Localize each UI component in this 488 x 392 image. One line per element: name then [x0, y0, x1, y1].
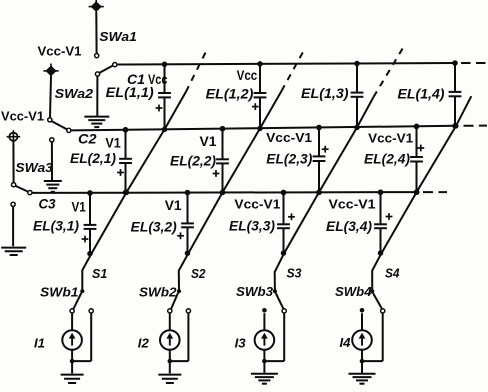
switch SWa3 pivot contact	[12, 183, 16, 187]
junction: EL(3,4) top node	[378, 190, 384, 196]
junction: column 4 ground node	[360, 359, 365, 364]
svg-text:EL(3,1): EL(3,1)	[33, 219, 79, 234]
junction on rail 2	[414, 124, 420, 129]
label SWa3	[15, 160, 53, 175]
capacitor EL(2,3) (EL element)	[313, 128, 329, 193]
svg-text:SWa1: SWa1	[99, 29, 137, 44]
svg-text:EL(2,3): EL(2,3)	[266, 152, 312, 167]
junction on rail 2	[123, 127, 129, 133]
switch SWb3 right contact	[282, 309, 286, 313]
ground (column 3)	[251, 374, 278, 384]
svg-text:I3: I3	[235, 335, 247, 350]
wire: SWa3 supply lead	[12, 141, 14, 182]
wire: SWb3 bypass branch	[264, 313, 284, 361]
svg-text:EL(1,3): EL(1,3)	[301, 86, 349, 101]
svg-text:V1: V1	[200, 134, 217, 149]
capacitor EL(2,2) (EL element)	[213, 129, 229, 193]
junction: EL(1,4) top node	[452, 60, 458, 66]
wire: row electrode rail 2	[71, 126, 456, 131]
wire: SWa1 supply lead	[95, 12, 97, 53]
svg-text:EL(1,2): EL(1,2)	[206, 87, 254, 102]
junction: EL(3,3) top node	[281, 190, 287, 196]
capacitor EL(1,4) (EL element)	[449, 63, 462, 126]
junction: EL(2,2) top node	[220, 126, 226, 132]
switch SWb4 left contact	[360, 308, 365, 313]
label SWa1	[99, 29, 137, 44]
junction: EL(2,3) top node	[316, 125, 322, 131]
capacitor C3 to ground (plates)	[1, 248, 26, 255]
svg-text:Vcc-V1: Vcc-V1	[1, 109, 44, 124]
switch SWb3 pivot	[273, 289, 277, 293]
wire: I1 lower lead	[71, 350, 73, 361]
wire: SWb1 bypass branch	[72, 313, 91, 361]
wire: SWb2 bypass branch	[170, 313, 189, 361]
current source I2	[160, 330, 180, 350]
switch SWb4 pivot	[370, 289, 374, 293]
switch SWb2 left contact	[168, 309, 172, 313]
label Vcc-V1 (SWa2 supply)	[38, 43, 82, 58]
switch SWb2 right contact	[186, 309, 190, 313]
wire: row-1 capacitor lead	[96, 76, 98, 116]
svg-text:S3: S3	[287, 265, 303, 280]
junction: column 3 ground node	[262, 359, 267, 364]
junction: EL(2,1) top node	[123, 127, 129, 133]
junction on rail 3	[414, 189, 420, 195]
wire: ground stem column 3	[263, 361, 265, 373]
label SWb1	[40, 285, 79, 299]
junction: EL(2,1) bottom node	[123, 190, 129, 196]
capacitor EL(2,4) (EL element)	[410, 126, 424, 192]
wire: I2 lower lead	[169, 350, 171, 361]
junction: EL(1,1) bottom node	[162, 127, 168, 133]
value label EL(2,4)	[364, 152, 410, 167]
svg-text:S1: S1	[92, 266, 107, 281]
junction on rail 2	[220, 126, 226, 132]
switch SWb1 pivot	[80, 289, 84, 293]
svg-text:C3: C3	[39, 196, 56, 211]
junction on rail 2	[316, 125, 322, 131]
svg-text:SWa2: SWa2	[55, 86, 94, 101]
switch SWb1 right contact	[89, 309, 93, 313]
wire: ground stem column 1	[71, 361, 73, 373]
capacitor C1 to ground (plates)	[84, 117, 109, 128]
junction: EL(2,4) top node	[414, 124, 420, 129]
ground (column 4)	[349, 374, 376, 384]
switch SWb4 right contact	[381, 309, 385, 313]
junction: EL(3,1) bottom node	[87, 251, 93, 257]
svg-text:EL(3,3): EL(3,3)	[229, 219, 275, 234]
svg-text:EL(1,4): EL(1,4)	[398, 87, 445, 102]
capacitor EL(1,3) (EL element)	[351, 64, 364, 128]
wire: I3 upper lead	[263, 313, 265, 329]
switch SWa3 lower fixed contact	[11, 202, 15, 206]
current source I3	[255, 330, 275, 350]
junction on rail 3	[220, 190, 226, 196]
net label Vcc-V1	[329, 196, 376, 211]
svg-text:Vcc: Vcc	[237, 68, 258, 83]
junction: EL(1,1) top node	[162, 62, 168, 68]
capacitor EL(3,2) (EL element)	[177, 193, 194, 254]
value label EL(3,3)	[229, 219, 275, 234]
label Vcc-V1 (SWa3 supply)	[1, 109, 44, 124]
switch SWa1 fixed contact	[95, 54, 99, 58]
net label Vcc-V1	[266, 130, 312, 145]
svg-text:Vcc-V1: Vcc-V1	[234, 196, 280, 211]
net label Vcc-V1	[234, 196, 280, 211]
junction on rail 2	[453, 123, 459, 128]
wire: row-2 capacitor lead	[51, 142, 53, 180]
junction: EL(2,4) bottom node	[414, 189, 420, 195]
svg-text:Vcc-V1: Vcc-V1	[266, 130, 312, 145]
junction: EL(3,3) bottom node	[281, 250, 287, 256]
junction: EL(3,2) top node	[185, 190, 191, 196]
switch SWb3 arm (to bypass)	[276, 293, 284, 308]
switch SWa1/row-1 pivot contact	[95, 72, 99, 76]
wire: rail 3 dashed continuation	[423, 191, 447, 193]
label S2	[191, 266, 206, 281]
switch SWa2 arm (to rail 2)	[52, 121, 67, 129]
wire: column 1 select line (diagonal)	[82, 49, 207, 292]
label SWb4	[335, 285, 372, 299]
svg-text:I1: I1	[34, 335, 45, 350]
wire: row-3 capacitor lead	[12, 207, 14, 247]
svg-text:EL(1,1): EL(1,1)	[106, 85, 154, 100]
switch row-2 rail contact	[67, 128, 71, 132]
junction: EL(3,4) bottom node	[378, 250, 384, 256]
capacitor EL(3,3) (EL element)	[277, 193, 295, 254]
svg-text:SWb2: SWb2	[139, 285, 177, 299]
wire: I3 lower lead	[263, 350, 265, 361]
svg-text:SWb3: SWb3	[236, 285, 273, 299]
switch SWa1 arm (to rail 1)	[99, 66, 113, 73]
svg-text:Vcc-V1: Vcc-V1	[38, 43, 82, 58]
capacitor EL(3,1) (EL element)	[82, 193, 97, 254]
svg-text:C2: C2	[78, 132, 97, 147]
current source I1	[62, 330, 82, 350]
switch SWa2 pivot contact	[48, 118, 52, 122]
label I4	[340, 335, 352, 350]
power terminal (SWa2 supply)	[43, 64, 58, 79]
value label EL(2,2)	[170, 153, 216, 168]
svg-text:EL(2,1): EL(2,1)	[70, 151, 116, 166]
net label V1	[165, 198, 182, 213]
junction: EL(2,2) bottom node	[220, 190, 226, 196]
value label EL(2,3)	[266, 152, 312, 167]
wire: rail 1 dashed continuation	[461, 62, 487, 64]
wire: column 4 select line (diagonal)	[372, 96, 471, 290]
junction: column 1 ground node	[70, 359, 75, 364]
value label EL(3,4)	[326, 219, 372, 234]
svg-text:S4: S4	[385, 265, 400, 280]
switch row-1 rail contact	[113, 63, 117, 67]
label S3	[287, 265, 303, 280]
label SWb3	[236, 285, 273, 299]
label S1	[92, 266, 107, 281]
capacitor C2 to ground (plates)	[44, 181, 62, 192]
ground (column 2)	[158, 375, 181, 383]
wire: row electrode rail 3	[32, 191, 417, 194]
wire: SWb4 bypass branch	[362, 313, 383, 361]
value label EL(2,1)	[70, 151, 116, 166]
label I1	[34, 335, 45, 350]
net label V1	[200, 134, 217, 149]
label C1	[127, 72, 145, 87]
label SWb2	[139, 285, 177, 299]
label SWa2	[55, 86, 94, 101]
power terminal (SWa3 supply)	[7, 130, 21, 143]
svg-text:V1: V1	[105, 136, 121, 151]
svg-text:SWa3: SWa3	[15, 160, 53, 175]
net label Vcc-V1	[368, 131, 413, 146]
switch SWb2 arm (to current source)	[171, 293, 178, 309]
switch SWa2 lower fixed contact	[50, 138, 54, 142]
wire: I2 upper lead	[169, 313, 171, 329]
wire: ground stem column 4	[361, 361, 363, 373]
junction: EL(3,2) bottom node	[185, 250, 191, 256]
label C3	[39, 196, 56, 211]
svg-text:I2: I2	[138, 335, 150, 350]
label Vcc (row 1 node)	[148, 72, 168, 87]
net label V1	[72, 199, 87, 214]
capacitor EL(1,2) (EL element)	[252, 64, 267, 128]
junction on rail 3	[185, 190, 191, 196]
value label EL(1,2)	[206, 87, 254, 102]
switch SWb1 arm (to current source)	[73, 293, 81, 309]
net label V1	[105, 136, 121, 151]
switch SWb3 left contact	[262, 308, 267, 313]
switch row-3 rail contact	[28, 191, 32, 195]
svg-text:SWb1: SWb1	[40, 285, 79, 299]
junction: EL(3,1) top node	[87, 190, 93, 196]
junction on rail 3	[316, 190, 322, 196]
value label EL(3,2)	[131, 220, 177, 235]
junction: EL(2,3) bottom node	[316, 190, 322, 196]
value label EL(1,1)	[106, 85, 154, 100]
capacitor EL(3,4) (EL element)	[374, 192, 392, 253]
junction: EL(1,3) bottom node	[354, 125, 360, 130]
svg-text:EL(3,2): EL(3,2)	[131, 220, 177, 235]
wire: SWa2 supply lead	[50, 76, 51, 117]
wire: column 2 select line (diagonal)	[179, 48, 306, 292]
junction: EL(1,3) top node	[354, 61, 360, 67]
ground (column 1)	[61, 375, 84, 383]
capacitor EL(2,1) (EL element)	[117, 130, 132, 193]
junction: EL(1,2) top node	[257, 61, 263, 67]
value label EL(1,4)	[398, 87, 445, 102]
junction on rail 3	[378, 190, 384, 196]
svg-text:EL(3,4): EL(3,4)	[326, 219, 372, 234]
svg-text:V1: V1	[72, 199, 87, 214]
svg-text:EL(2,2): EL(2,2)	[170, 153, 216, 168]
label C2	[78, 132, 97, 147]
junction: EL(1,2) bottom node	[257, 126, 263, 132]
wire: ground stem column 2	[169, 361, 171, 373]
net label Vcc	[237, 68, 258, 83]
current source I4	[352, 330, 372, 350]
svg-text:S2: S2	[191, 266, 206, 281]
svg-text:Vcc-V1: Vcc-V1	[368, 131, 413, 146]
wire: I1 upper lead	[71, 313, 73, 329]
junction on rail 3	[281, 190, 287, 196]
power terminal (SWa1 supply)	[89, 0, 104, 14]
value label EL(1,3)	[301, 86, 349, 101]
wire: I4 lower lead	[361, 350, 363, 361]
wire: I4 upper lead	[361, 313, 363, 329]
switch SWa3 arm (to rail 3)	[16, 186, 28, 192]
wire: column 3 select line (diagonal)	[275, 47, 404, 291]
wire: rail 2 dashed continuation	[464, 125, 488, 127]
wire: row electrode rail 1 (top)	[117, 63, 456, 65]
switch SWb4 arm (to bypass)	[373, 293, 382, 308]
junction on rail 3	[87, 190, 93, 196]
junction: column 2 ground node	[168, 359, 173, 364]
switch SWb2 pivot	[177, 289, 181, 293]
label I3	[235, 335, 247, 350]
svg-text:I4: I4	[340, 335, 352, 350]
svg-text:EL(2,4): EL(2,4)	[364, 152, 410, 167]
capacitor EL(1,1) (EL element)	[156, 64, 171, 129]
value label EL(3,1)	[33, 219, 79, 234]
svg-text:SWb4: SWb4	[335, 285, 372, 299]
svg-text:Vcc-V1: Vcc-V1	[329, 196, 376, 211]
label S4	[385, 265, 400, 280]
junction: EL(1,4) bottom node	[452, 123, 458, 128]
junction on rail 3	[124, 190, 129, 196]
svg-text:V1: V1	[165, 198, 182, 213]
switch SWb1 left contact	[70, 309, 74, 313]
label I2	[138, 335, 150, 350]
